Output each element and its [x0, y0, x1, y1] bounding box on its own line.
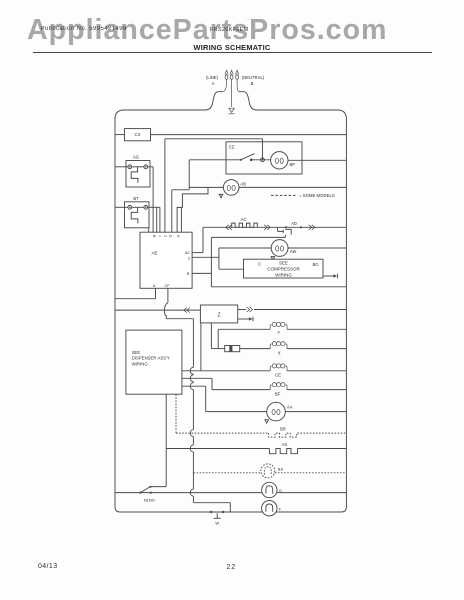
wire through AW to right border [219, 247, 271, 249]
wire dispenser to AA [182, 385, 206, 387]
wire border to CX [115, 134, 125, 136]
AG internal contact [131, 167, 138, 183]
long wire to right border [211, 286, 346, 288]
wire AE pin A to border [155, 288, 157, 298]
power cord ground wire [231, 74, 233, 75]
svg-text:= SOME MODELS: = SOME MODELS [299, 193, 335, 198]
svg-text:F: F [279, 508, 282, 512]
wire AE pin B [192, 272, 211, 274]
svg-text:WIRING: WIRING [275, 273, 292, 278]
svg-text:A: A [153, 284, 156, 288]
legend dashed line [271, 194, 297, 196]
motor AA (auger) [267, 402, 286, 421]
svg-text:AG: AG [133, 154, 139, 159]
svg-text:CE: CE [275, 372, 281, 377]
svg-text:AB: AB [240, 182, 246, 187]
dashed wire to BS lamp [193, 472, 260, 474]
svg-text:A2: A2 [185, 251, 190, 255]
svg-text:2: 2 [164, 235, 168, 237]
pushbutton W [210, 511, 212, 513]
svg-text:(LINE): (LINE) [206, 75, 219, 80]
wire to compressor box [219, 268, 244, 270]
solenoid Y line [218, 328, 270, 330]
staircase wire AB node to AE [177, 187, 208, 232]
wire Y line riser [217, 329, 219, 348]
switch box CZ [226, 142, 302, 174]
svg-text:B: B [187, 272, 190, 276]
node junction terminal [261, 158, 265, 162]
motor AB [223, 180, 239, 196]
svg-text:(NEUTRAL): (NEUTRAL) [242, 75, 265, 80]
connector dots AD [285, 226, 287, 228]
svg-text:A: A [212, 81, 215, 86]
svg-text:C: C [188, 257, 191, 261]
heater line AC/AD to right border [203, 226, 346, 228]
svg-text:WIRING: WIRING [132, 361, 149, 366]
svg-text:G: G [176, 235, 180, 238]
lamp F [262, 501, 277, 516]
wire border through N1NO to G lamp [115, 492, 346, 494]
cabinet outline border [115, 110, 346, 512]
svg-text:SEE: SEE [279, 260, 288, 265]
wire Z bottom-left down to CE [200, 323, 202, 371]
svg-text:BS: BS [278, 466, 284, 471]
svg-text:CF: CF [164, 284, 170, 288]
wire AG to AE [148, 166, 153, 168]
model number [210, 27, 248, 33]
svg-text:CX: CX [134, 132, 140, 137]
wire dispenser to BF [182, 377, 212, 379]
switch N1NO [140, 487, 150, 493]
svg-text:B: B [251, 81, 254, 86]
svg-text:N1NO: N1NO [144, 497, 155, 502]
wire Z bottom to X line [210, 323, 212, 349]
cord down arrow [229, 108, 234, 112]
svg-text:SEE: SEE [132, 350, 141, 355]
lamp BS (some models) [261, 464, 275, 478]
diode component on X line [225, 346, 240, 352]
solenoid BF [270, 385, 271, 390]
motor BP [271, 152, 288, 169]
svg-text:AX: AX [282, 442, 288, 447]
motor AW (compressor) [271, 240, 288, 257]
svg-text:BG: BG [312, 262, 318, 267]
wire BT to AE pins [148, 206, 160, 208]
svg-text:CZ: CZ [229, 144, 235, 149]
heater AX [166, 448, 269, 450]
svg-text:Y: Y [277, 330, 280, 335]
wire border to Z [115, 309, 200, 311]
power cord line A [226, 74, 228, 75]
switch AG [126, 161, 150, 188]
svg-text:C: C [258, 262, 261, 267]
wire CZ node down to AB [188, 160, 190, 190]
svg-text:=: = [157, 235, 161, 237]
svg-text:DISPENSER ASS'Y: DISPENSER ASS'Y [132, 356, 170, 361]
wire CX to right border [151, 134, 347, 136]
wire CZ node to AE pin [172, 189, 189, 191]
svg-text:AE: AE [151, 251, 157, 256]
svg-text:BR: BR [280, 426, 286, 431]
wire dispenser bottom to N1NO [165, 394, 167, 486]
wire AE pin up to CZ node [164, 139, 166, 232]
svg-text:BT: BT [133, 196, 139, 201]
box SEE DISPENSER ASSY WIRING [126, 330, 182, 394]
wire BP to right border [288, 159, 346, 161]
svg-text:Z: Z [217, 313, 220, 319]
page title [0, 43, 464, 52]
wire border to AG [115, 166, 128, 168]
solenoid CE [270, 366, 271, 371]
heater AC [232, 223, 258, 227]
svg-text:BP: BP [290, 162, 296, 167]
wire into CZ [189, 159, 241, 161]
switch BT [125, 202, 150, 228]
wire AE pin A2 to heater line [192, 252, 203, 254]
wire AE pin C [192, 256, 219, 258]
dashed wire dispenser down to BR [175, 394, 177, 433]
border top notch [206, 92, 224, 110]
svg-text:AW: AW [290, 249, 297, 254]
svg-text:G: G [279, 489, 282, 493]
Z lower output terminal [238, 318, 249, 320]
wire dispenser to CE solenoid [182, 370, 270, 372]
wire CF down the middle [192, 319, 194, 368]
wire BT box corner to AE [148, 228, 150, 232]
wire AE pin CF down (hops Z feed) [167, 288, 169, 303]
Z output to right border [238, 309, 247, 311]
control box AE [140, 232, 192, 288]
lamp G [262, 482, 277, 497]
wire thermostat to B node [211, 236, 285, 238]
relay Z [200, 305, 237, 323]
footer date [38, 563, 58, 570]
BT internal contact [131, 207, 138, 223]
heater BR (some models) [176, 432, 269, 434]
solenoid X [270, 344, 271, 349]
svg-text:X: X [278, 351, 281, 356]
svg-text:BF: BF [275, 391, 281, 396]
page number [227, 564, 236, 571]
wire border to BT [115, 206, 128, 208]
watermark [27, 14, 387, 47]
capacitor CX [125, 129, 151, 141]
power cord line B [236, 74, 238, 75]
svg-text:AC: AC [241, 217, 247, 222]
svg-text:COMPRESSOR: COMPRESSOR [267, 267, 300, 272]
box SEE COMPRESSOR WIRING [244, 259, 324, 278]
svg-text:W: W [215, 521, 219, 526]
terminal arrow BG [323, 275, 334, 277]
defrost thermostat stub [277, 227, 279, 231]
header rule [33, 52, 432, 53]
wire AB to right border [239, 186, 346, 188]
svg-text:AA: AA [287, 405, 293, 410]
publication number [41, 26, 127, 32]
svg-text:AD: AD [291, 221, 297, 226]
CZ switch contacts [240, 159, 242, 161]
